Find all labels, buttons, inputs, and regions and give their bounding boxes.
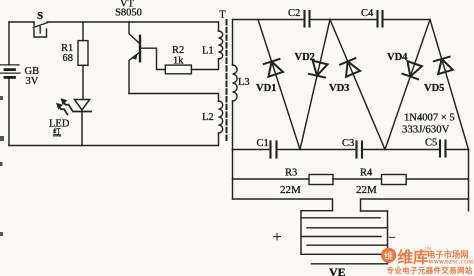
wire: bottom rail (9, 145, 219, 147)
base bar (139, 36, 141, 61)
diode VD5 (434, 57, 453, 74)
emitter lead (129, 52, 140, 93)
svg-text:R2: R2 (172, 45, 184, 56)
svg-text:L3: L3 (238, 77, 250, 88)
winding L1 (218, 22, 220, 31)
wire: resistor line left segment (233, 178, 310, 180)
wire: capacitor line segment 3 (363, 149, 439, 151)
switch S (33, 22, 47, 37)
wire: left vertical rail (battery top) (8, 22, 10, 65)
wire: output line right (negative) (361, 199, 469, 211)
diode VD3 (340, 58, 360, 77)
svg-text:维: 维 (384, 250, 393, 261)
svg-text:1k: 1k (173, 56, 184, 67)
svg-text:S: S (37, 10, 43, 22)
wire: secondary top line segment 2 (311, 19, 377, 21)
emitter arrow (131, 53, 138, 60)
wire: left vertical rail (battery bottom) (8, 77, 10, 145)
electrode mesh VE: right edge (387, 211, 389, 264)
diode VD1 (264, 59, 283, 77)
resistor R1 (82, 22, 84, 41)
capacitor C5 (440, 141, 446, 157)
wire: resistor line mid segment (333, 178, 382, 180)
electrode mesh VE: bar 4 (307, 244, 388, 246)
winding L3 (232, 20, 234, 66)
wire: secondary top line segment 3 (384, 19, 431, 21)
svg-text:C1: C1 (257, 138, 269, 149)
electrode mesh VE: bar 3 (301, 236, 381, 238)
svg-text:C2: C2 (288, 8, 300, 19)
svg-text:3V: 3V (26, 76, 39, 87)
svg-text:VD4: VD4 (387, 52, 408, 63)
svg-text:VD1: VD1 (256, 83, 276, 94)
diode chain diagonal A3-B3 (430, 20, 469, 150)
wire L2 bottom to bottom rail (218, 133, 220, 146)
diode chain diagonal B2-A3 (385, 20, 430, 150)
capacitor C3 (357, 142, 363, 158)
collector lead (129, 22, 140, 44)
base lead (140, 48, 165, 69)
scan specks on left edge (0, 96, 4, 236)
svg-text:S8050: S8050 (115, 8, 142, 19)
capacitor C4 (378, 11, 383, 27)
wire: right vertical of output section (468, 150, 470, 211)
svg-text:VE: VE (329, 265, 346, 276)
svg-text:T: T (219, 10, 226, 21)
wire: resistor line right segment (406, 178, 468, 180)
wire: capacitor line segment 4 (447, 149, 469, 151)
svg-text:电子市场网: 电子市场网 (427, 250, 469, 260)
electrode mesh VE: top right segment (361, 210, 388, 212)
svg-text:+: + (273, 229, 282, 246)
electrode mesh VE: bar 5 (301, 253, 381, 255)
wire: output line left (positive) (233, 199, 333, 211)
svg-text:C4: C4 (361, 8, 374, 19)
wire: capacitor line segment 2 (278, 149, 356, 151)
svg-text:VD3: VD3 (329, 83, 349, 94)
winding L2 (219, 101, 223, 133)
svg-text:–: – (388, 229, 396, 243)
resistor R2 (165, 65, 191, 74)
LED (73, 100, 91, 146)
svg-text:TM: TM (425, 246, 432, 251)
wire: left vertical of output section (232, 150, 234, 200)
wire: left rail top segment to switch (9, 21, 34, 23)
svg-text:红: 红 (53, 127, 61, 137)
transformer T core (226, 20, 228, 140)
watermark logo circle (381, 248, 396, 263)
svg-text:VD5: VD5 (424, 83, 444, 94)
svg-text:22M: 22M (356, 184, 377, 196)
electrode mesh VE: top left segment (301, 210, 333, 212)
wire: secondary top line segment 1 (233, 19, 304, 21)
diode chain diagonal A2-B2 (330, 20, 385, 150)
svg-text:C3: C3 (342, 138, 354, 149)
svg-text:WWW.DZSC.COM: WWW.DZSC.COM (429, 260, 474, 266)
capacitor C2 (305, 11, 310, 27)
svg-text:R4: R4 (360, 168, 373, 179)
svg-text:1N4007 × 5: 1N4007 × 5 (404, 113, 455, 124)
svg-text:L1: L1 (202, 46, 214, 57)
diode VD4 (403, 61, 422, 79)
electrode mesh VE: bar 1 (301, 217, 380, 219)
wire R2 to L1 (191, 59, 218, 70)
svg-text:22M: 22M (280, 184, 301, 196)
wire emitter rail to L2 (129, 94, 219, 102)
svg-text:R3: R3 (285, 168, 297, 179)
svg-text:VD2: VD2 (295, 52, 315, 63)
electrode mesh VE: bar 2 (307, 227, 388, 229)
wire: top rail from switch to transformer (47, 21, 219, 23)
svg-text:L2: L2 (202, 112, 214, 123)
resistor R3 (309, 175, 333, 185)
svg-text:68: 68 (63, 53, 74, 64)
capacitor C1 (271, 142, 277, 158)
electrode mesh VE: left edge (300, 211, 302, 255)
svg-text:专业电子元器件交易网站: 专业电子元器件交易网站 (387, 266, 473, 275)
svg-text:C5: C5 (425, 138, 437, 149)
resistor R4 (382, 175, 407, 185)
electrode mesh VE: bottom bar (312, 263, 388, 265)
diode VD2 (309, 61, 328, 78)
LED light arrows (56, 98, 72, 114)
diode chain diagonal B1-A2 (300, 20, 330, 150)
diode chain diagonal A1-B1 (258, 20, 300, 150)
transistor VT S8050 (129, 22, 165, 94)
wire: capacitor line segment 1 (233, 149, 270, 151)
svg-text:333J/630V: 333J/630V (402, 124, 450, 136)
battery GB (1, 65, 21, 78)
